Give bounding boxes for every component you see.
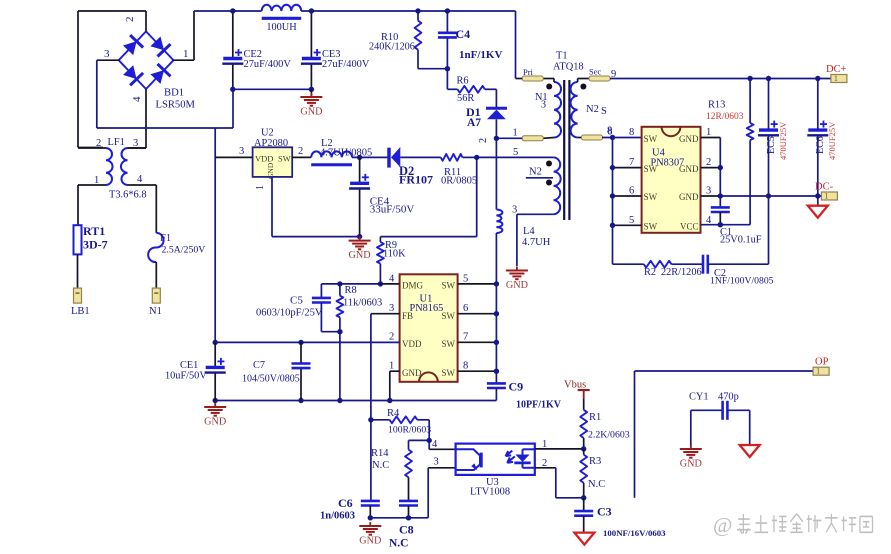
junction EC6 top <box>815 76 820 81</box>
svg-text:GND: GND <box>300 107 322 118</box>
svg-text:1: 1 <box>834 74 838 83</box>
svg-text:ATQ18: ATQ18 <box>553 62 584 73</box>
svg-text:1NF/100V/0805: 1NF/100V/0805 <box>710 276 774 287</box>
svg-text:1: 1 <box>513 128 518 139</box>
svg-text:SW: SW <box>442 281 456 291</box>
fuse symbol pin8 <box>582 135 603 140</box>
svg-text:N.C: N.C <box>588 479 605 490</box>
svg-text:SW: SW <box>442 368 456 378</box>
svg-text:N2: N2 <box>529 167 542 178</box>
bridge diode 4-to-1 (bottom-right) <box>150 70 164 84</box>
svg-text:1: 1 <box>183 48 189 60</box>
svg-text:1: 1 <box>94 175 99 186</box>
junction VCC/C1 <box>718 222 723 227</box>
svg-text:SW: SW <box>644 222 658 232</box>
opto LED <box>515 455 529 462</box>
wire: R1 bottom lead <box>583 438 585 449</box>
svg-text:8: 8 <box>629 127 634 138</box>
junction R8 riser on rail <box>337 398 342 403</box>
junction C8 bottom <box>406 515 411 520</box>
wire: R11 right lead <box>463 156 477 158</box>
svg-text:27uF/400V: 27uF/400V <box>244 59 292 70</box>
wire: C8 bottom lead <box>408 506 410 518</box>
capacitor C4 1nF/1KV <box>438 31 457 34</box>
wire: CE2 leads <box>232 11 234 59</box>
wire: CY1 right <box>727 409 749 411</box>
wire: R9 top lead <box>379 237 381 242</box>
resistor R4 100R/0603 <box>390 416 418 423</box>
wire: RT1 to LB1 <box>77 254 79 288</box>
power symbol Vbus <box>578 389 590 391</box>
svg-text:10PF/1KV: 10PF/1KV <box>516 400 562 411</box>
svg-text:C5: C5 <box>290 295 303 307</box>
wire: SW riser lower <box>495 233 497 383</box>
wire: riser x=215 to CE1/VDD <box>214 128 216 342</box>
wire: EC5 leads <box>768 79 770 131</box>
resistor R13 12R/0603 <box>747 123 754 140</box>
capacitor CE2 27uF/400V <box>223 57 242 60</box>
junction R4 left <box>368 417 373 422</box>
svg-text:R8: R8 <box>345 285 357 296</box>
wire: SW stubs U1 <box>458 283 497 285</box>
junction CE3 top <box>309 8 314 13</box>
wire: LF1 pin2 lead <box>78 147 106 149</box>
svg-text:3: 3 <box>434 457 439 468</box>
T1 primary N1 coil <box>554 82 561 138</box>
svg-text:VDD: VDD <box>255 154 273 164</box>
wire: T1 pin8 <box>578 137 583 139</box>
svg-text:8: 8 <box>463 361 468 372</box>
svg-text:6: 6 <box>629 186 634 197</box>
svg-text:100R/0603: 100R/0603 <box>388 425 431 436</box>
junction R9/DMG <box>378 281 383 286</box>
junction R11/pin5 node <box>474 155 479 160</box>
capacitor C7 104/50V/0805 <box>292 362 311 365</box>
wire: U2 pin3 <box>215 156 252 158</box>
diode D1 A7 <box>486 107 507 110</box>
svg-text:SW: SW <box>644 192 658 202</box>
wire: C6 bottom lead <box>369 506 371 518</box>
inductor L 100UH coil <box>262 5 302 11</box>
svg-text:LB1: LB1 <box>71 306 90 317</box>
svg-text:N.C: N.C <box>372 460 389 471</box>
junction U4 SW stub <box>610 193 615 198</box>
svg-text:GND: GND <box>679 192 699 202</box>
junction R8 top <box>337 281 342 286</box>
capacitor C6 1n/0603 <box>361 500 380 503</box>
wire: FB pin3 <box>371 313 400 315</box>
wire: C4 leads <box>446 11 448 33</box>
wire: DC- triangle stub <box>817 196 819 206</box>
svg-text:470p: 470p <box>718 392 739 403</box>
junction R13 top <box>747 76 752 81</box>
svg-text:Sec: Sec <box>589 67 602 77</box>
junction R3/C3/OP <box>581 495 586 500</box>
svg-text:CE1: CE1 <box>180 360 198 371</box>
junction R8 bottom <box>337 329 342 334</box>
ground below CE1 <box>214 403 216 407</box>
svg-text:4: 4 <box>131 96 143 102</box>
bridge pin 3 lead <box>97 59 120 61</box>
capacitor CE4 33uF/50V <box>350 182 369 185</box>
svg-text:5: 5 <box>463 274 468 285</box>
wire: LF1 pin1 lead <box>78 184 106 186</box>
power symbol CY1 right <box>740 445 760 457</box>
junction DC- <box>815 193 820 198</box>
wire: opto pin4 <box>428 440 430 449</box>
wire: R13 top lead <box>749 79 751 124</box>
svg-text:BD1: BD1 <box>164 88 184 99</box>
bridge pin 1 lead <box>173 59 194 61</box>
wire: C7 leads <box>300 342 302 363</box>
resistor R14 N.C <box>405 450 412 478</box>
svg-text:GND: GND <box>204 417 226 428</box>
svg-text:1: 1 <box>389 361 394 372</box>
svg-text:SW: SW <box>442 311 456 321</box>
svg-text:SW: SW <box>442 339 456 349</box>
wire: Vbus to R1 <box>583 398 585 410</box>
wire: CE1 leads <box>214 342 216 367</box>
connector DC- <box>821 192 837 200</box>
svg-text:2: 2 <box>389 332 394 343</box>
connector LB1 <box>74 288 82 303</box>
svg-text:GND: GND <box>679 134 699 144</box>
svg-text:3: 3 <box>133 138 138 149</box>
svg-text:EC6: EC6 <box>815 136 826 154</box>
svg-text:110K: 110K <box>383 249 406 260</box>
junction SW node <box>494 281 499 286</box>
svg-text:1: 1 <box>542 439 547 450</box>
wire: R3 bottom lead <box>583 483 585 498</box>
svg-text:240K/1206: 240K/1206 <box>369 42 415 53</box>
junction CE1 top <box>213 340 218 345</box>
svg-text:12R/0603: 12R/0603 <box>706 112 744 122</box>
power symbol DC- triangle <box>808 206 828 218</box>
LF1 left coil <box>106 148 113 185</box>
wire: R14 to C8 <box>408 477 410 501</box>
junction U4 SW stub <box>610 165 615 170</box>
svg-text:SW: SW <box>644 164 658 174</box>
wire: VCC pin4 <box>701 224 751 226</box>
wire: T1 pin3 to gnd <box>517 213 554 215</box>
svg-text:FR107: FR107 <box>399 173 433 187</box>
wire: L2 to D2 <box>352 156 389 158</box>
svg-text:3: 3 <box>104 48 110 60</box>
inductor L4 4.7UH coil <box>496 210 502 234</box>
junction SW node <box>494 311 499 316</box>
wire: neg rail CE2-CE3 <box>233 88 312 90</box>
connector N1 <box>152 288 160 303</box>
svg-text:4: 4 <box>137 174 143 185</box>
svg-text:T1: T1 <box>556 51 568 62</box>
resistor R9 110K <box>377 242 384 264</box>
wire: C1 bottom lead <box>719 212 721 225</box>
svg-text:LTV1008: LTV1008 <box>470 487 510 498</box>
resistor R2 22R/1206 <box>644 261 672 268</box>
svg-text:100NF/16V/0603: 100NF/16V/0603 <box>603 528 666 538</box>
power symbol below C3 <box>574 533 594 545</box>
wire: CE4 leads <box>359 157 361 183</box>
svg-text:SW: SW <box>644 134 658 144</box>
wire: CY1 left <box>691 409 723 411</box>
svg-text:CY1: CY1 <box>689 392 709 403</box>
svg-text:2: 2 <box>298 146 303 157</box>
capacitor CE1 10uF/50V <box>206 366 225 369</box>
wire: opto pin2 <box>535 467 556 469</box>
wire: D2 to R11 <box>400 156 441 158</box>
svg-text:EC5: EC5 <box>766 136 777 154</box>
svg-text:N1: N1 <box>149 306 162 317</box>
svg-text:3D-7: 3D-7 <box>83 238 108 252</box>
wire: C5 bottom lead <box>320 303 322 332</box>
junction CE2 top <box>230 8 235 13</box>
wire: R9 bottom lead <box>379 264 381 284</box>
optocoupler U3 LTV1008 box <box>456 444 535 475</box>
svg-text:2: 2 <box>478 138 489 143</box>
svg-text:S: S <box>601 106 607 117</box>
svg-text:4.7UH: 4.7UH <box>522 237 551 248</box>
svg-text:R3: R3 <box>589 456 601 467</box>
svg-text:27uF/400V: 27uF/400V <box>322 59 370 70</box>
fuse F1 2.5A/250V <box>148 233 163 262</box>
wire: D1 to node 2 <box>495 119 497 138</box>
svg-text:2: 2 <box>542 458 547 469</box>
wire: VCC riser to R13 <box>749 140 751 225</box>
svg-text:3: 3 <box>706 186 711 197</box>
connector OP <box>813 367 829 375</box>
svg-text:0603/10pF/25V: 0603/10pF/25V <box>256 308 323 319</box>
resistor R10 240K/1206 <box>415 21 422 50</box>
opto light arrows <box>506 451 513 457</box>
svg-text:GND: GND <box>506 280 528 291</box>
ground CY1 left <box>690 445 692 449</box>
svg-text:3: 3 <box>541 100 546 111</box>
svg-text:R6: R6 <box>457 76 469 87</box>
junction CE4 top <box>357 155 362 160</box>
wire: R14 branch <box>409 439 430 441</box>
svg-text:2: 2 <box>96 138 101 149</box>
wire: C9 bottom lead <box>495 388 497 401</box>
ground below CE3 <box>310 93 312 97</box>
junction C6 gnd <box>368 515 373 520</box>
bridge pin 4 lead to LF1 pin3 <box>145 89 147 148</box>
junction CE4 gnd <box>357 234 362 239</box>
wire: C2 to gnd riser <box>708 263 769 265</box>
wire: R3 top lead <box>583 449 585 455</box>
junction EC5 top <box>766 76 771 81</box>
svg-text:6: 6 <box>463 303 468 314</box>
wire: bottom gnd rail <box>215 400 496 402</box>
inductor L2 4.7UH/0805 <box>311 151 352 157</box>
bridge rectifier BD1 diamond <box>119 31 174 89</box>
svg-text:56R: 56R <box>457 93 474 104</box>
svg-text:DC-: DC- <box>815 182 834 193</box>
svg-text:5: 5 <box>513 147 518 158</box>
svg-text:GND: GND <box>402 368 422 378</box>
diode D2 FR107 <box>391 147 400 167</box>
phase dot secondary <box>580 84 586 90</box>
junction node-2 D1/T1 <box>494 136 499 141</box>
resistor R6 56R <box>458 86 485 93</box>
svg-text:C9: C9 <box>509 380 524 394</box>
wire: VDD rail <box>215 341 399 343</box>
capacitor C1 25V0.1uF <box>711 206 730 209</box>
wire: DC+ top rail <box>194 10 262 12</box>
phase dot N1 <box>546 84 552 90</box>
wire: R6 to D1 <box>485 88 497 90</box>
ground below C6 <box>369 522 371 526</box>
svg-text:3: 3 <box>389 303 394 314</box>
wire: LF1 pin4 lead <box>128 184 157 186</box>
wire: gnd link C6-C8-pin3 <box>370 517 428 519</box>
junction U1 gnd on rail <box>387 398 392 403</box>
junction CE1 bottom <box>213 398 218 403</box>
svg-text:7: 7 <box>629 157 634 168</box>
svg-text:2: 2 <box>124 17 136 23</box>
thermistor RT1 3D-7 <box>74 225 82 254</box>
svg-text:2: 2 <box>706 157 711 168</box>
svg-text:L4: L4 <box>523 226 535 237</box>
op-amp U4 PN8307 box <box>642 127 701 233</box>
svg-text:R13: R13 <box>708 100 725 111</box>
wire: left AC drop to LF1 pin2 <box>77 11 79 148</box>
fuse symbol Pri <box>522 76 543 81</box>
svg-text:GND: GND <box>679 164 699 174</box>
svg-text:DMG: DMG <box>402 281 424 291</box>
svg-text:T3.6*6.8: T3.6*6.8 <box>109 190 147 201</box>
svg-text:1nF/1KV: 1nF/1KV <box>459 49 502 61</box>
svg-text:GND: GND <box>680 459 702 470</box>
svg-text:C8: C8 <box>399 523 414 537</box>
junction EC5 bottom <box>766 193 771 198</box>
connector DC+ <box>831 75 847 83</box>
svg-text:R4: R4 <box>387 408 400 419</box>
resistor R8 11k/0603 <box>337 296 344 318</box>
svg-text:470UF25V: 470UF25V <box>827 121 837 160</box>
wire: pin5 to lower winding <box>477 156 554 158</box>
svg-text:C3: C3 <box>597 505 612 519</box>
junction C4 bottom <box>445 66 450 71</box>
svg-text:1: 1 <box>706 127 711 138</box>
ground below CE4 <box>359 237 361 241</box>
junction R4/R14/opto <box>427 438 432 443</box>
svg-text:SW: SW <box>278 154 291 164</box>
svg-text:R1: R1 <box>589 412 601 423</box>
svg-text:VDD: VDD <box>402 339 422 349</box>
bridge diode 3-to-4 (bottom-left) <box>123 65 137 79</box>
svg-text:0R/0805: 0R/0805 <box>441 176 477 187</box>
svg-text:104/50V/0805: 104/50V/0805 <box>242 374 300 385</box>
svg-text:N.C: N.C <box>389 538 409 550</box>
wire: LF1 pin3 lead <box>128 147 146 149</box>
wire: U4 right gnd bus <box>701 137 721 139</box>
T1 lower primary coil <box>554 157 561 214</box>
svg-text:Pri: Pri <box>523 67 534 77</box>
wire: F1 to N1 <box>155 262 157 288</box>
wire: R8 riser to gnd rail <box>339 332 341 401</box>
svg-text:22R/1206: 22R/1206 <box>661 267 702 278</box>
svg-text:8: 8 <box>608 127 613 138</box>
wire: C3 bottom lead <box>583 516 585 533</box>
wire: CE3 gnd stub <box>310 89 312 97</box>
svg-text:GND: GND <box>359 536 381 547</box>
wire: FB riser to C6 <box>370 314 372 501</box>
svg-text:VCC: VCC <box>680 222 699 232</box>
wire: U2 pin1 gnd <box>271 177 273 237</box>
wire: R2 row left lead <box>613 263 644 265</box>
wire: R11 node riser to R9 <box>476 157 478 236</box>
resistor R3 N.C <box>580 455 587 483</box>
resistor R11 0R/0805 <box>441 154 463 161</box>
wire: C5 top lead <box>320 284 322 298</box>
capacitor C5 0603/10pF/25V <box>312 297 331 300</box>
svg-text:1n/0603: 1n/0603 <box>320 511 355 522</box>
svg-text:RT1: RT1 <box>83 224 105 238</box>
svg-text:3: 3 <box>239 146 244 157</box>
wire: OP riser <box>634 371 636 498</box>
svg-text:A7: A7 <box>467 117 481 129</box>
svg-text:4: 4 <box>432 439 438 450</box>
wire: AC top rail left <box>78 10 146 12</box>
bridge diode 2-to-1 (top-right) <box>150 37 164 51</box>
wire: GND pin1 <box>390 370 400 372</box>
op-amp U1 PN8165 box <box>400 274 458 382</box>
svg-text:R2: R2 <box>644 267 656 278</box>
svg-text:5: 5 <box>629 215 634 226</box>
wire: U2 pin2 to L2 <box>292 156 311 158</box>
bridge pin 2 lead <box>145 11 147 31</box>
svg-text:C6: C6 <box>338 496 353 510</box>
svg-text:GND: GND <box>266 162 275 179</box>
junction CE3 bottom <box>309 87 314 92</box>
bridge diode 3-to-2 (top-left) <box>123 41 137 55</box>
capacitor CY1 470p <box>721 401 724 420</box>
svg-text:3: 3 <box>512 205 517 216</box>
wire: opto pin3 <box>428 467 455 469</box>
svg-text:OP: OP <box>815 357 829 368</box>
capacitor EC5 470UF25V <box>759 128 778 131</box>
svg-text:F1: F1 <box>160 233 171 244</box>
phase dot lower b <box>546 180 552 186</box>
svg-text:25V0.1uF: 25V0.1uF <box>720 235 762 246</box>
resistor R1 2.2K/0603 <box>580 410 587 438</box>
svg-text:C7: C7 <box>253 360 265 371</box>
wire: SW riser from D1 node <box>495 138 497 209</box>
capacitor C8 N.C <box>399 500 418 503</box>
svg-text:DC+: DC+ <box>826 64 847 75</box>
svg-text:GND: GND <box>349 250 371 261</box>
LF1 right coil <box>121 148 128 185</box>
junction SW node <box>494 340 499 345</box>
svg-text:PN8165: PN8165 <box>410 303 444 314</box>
svg-text:Vbus: Vbus <box>564 380 586 391</box>
svg-text:U2: U2 <box>261 128 274 139</box>
svg-text:470UF25V: 470UF25V <box>778 121 788 160</box>
wire: CE3 leads <box>310 11 312 59</box>
svg-text:33uF/50V: 33uF/50V <box>370 204 415 216</box>
junction C4 top <box>445 8 450 13</box>
svg-text:1: 1 <box>255 185 266 190</box>
svg-text:100UH: 100UH <box>266 22 297 33</box>
junction CE2 bottom <box>230 87 235 92</box>
svg-text:LF1: LF1 <box>108 137 125 148</box>
svg-text:AP2080: AP2080 <box>254 138 288 149</box>
op-amp U2 AP2080 box <box>253 147 293 177</box>
junction U4 SW stub <box>610 223 615 228</box>
svg-text:@: @ <box>713 513 732 537</box>
capacitor C9 10PF/1KV <box>487 382 506 385</box>
svg-text:LSR50M: LSR50M <box>156 100 196 111</box>
